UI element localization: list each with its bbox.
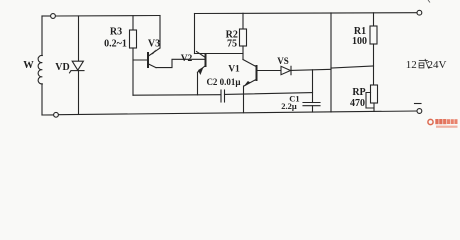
wire RP wiper xyxy=(366,93,374,109)
wire RP bottom lead xyxy=(373,103,375,111)
wire V1 emitter drop xyxy=(243,86,245,113)
wire R3 bottom lead down to lower bus xyxy=(132,48,134,95)
capacitor C1 xyxy=(303,103,320,106)
wire to V1 collector xyxy=(243,60,256,67)
wire R1 top lead xyxy=(373,13,375,26)
diode VD zener xyxy=(70,61,85,73)
plus tick top right xyxy=(428,0,430,3)
wire R2 bottom lead xyxy=(242,46,244,60)
capacitor C2 xyxy=(221,90,225,102)
resistor R1 xyxy=(370,26,377,44)
svg-text:W: W xyxy=(23,60,34,71)
wire mid vertical bus xyxy=(330,13,332,112)
wire lower bus left segment xyxy=(133,94,221,97)
wire top-left rail right part xyxy=(56,15,161,18)
svg-text:12: 12 xyxy=(406,59,417,71)
transistor V2 xyxy=(197,52,206,76)
svg-text:VD: VD xyxy=(55,62,69,73)
svg-text:75: 75 xyxy=(227,39,237,50)
terminal input bottom xyxy=(54,112,59,117)
terminal input top xyxy=(51,14,56,19)
wire bottom rail left xyxy=(42,114,54,116)
wire V2 emitter drop xyxy=(197,72,199,95)
wire junction to R1 bottom xyxy=(331,66,374,68)
terminal output plus xyxy=(417,10,422,15)
svg-text:V1: V1 xyxy=(228,64,240,74)
transistor V1 xyxy=(244,66,257,86)
wire R2 top lead xyxy=(242,13,244,29)
wire C1 bottom lead xyxy=(312,106,314,112)
wire VS to junction xyxy=(291,69,331,70)
wire W top lead xyxy=(41,16,43,56)
wire lower bus right segment xyxy=(225,93,313,95)
resistor R2 xyxy=(240,29,247,46)
svg-text:V3: V3 xyxy=(148,39,160,50)
terminal output minus xyxy=(417,109,422,114)
wire top-left rail xyxy=(42,15,51,17)
watermark logo xyxy=(428,119,458,128)
wire R1 bottom lead xyxy=(373,44,375,85)
wire bottom rail xyxy=(59,111,418,115)
svg-text:0.2~1: 0.2~1 xyxy=(104,39,127,50)
wire C1 top lead xyxy=(312,70,314,103)
resistor R3 xyxy=(130,30,137,48)
diode VS xyxy=(281,66,291,74)
minus sign xyxy=(415,103,422,105)
wire R2-bottom horizontal xyxy=(195,53,244,55)
svg-text:100: 100 xyxy=(352,36,367,47)
svg-text:C2 0.01μ: C2 0.01μ xyxy=(206,77,240,87)
wire W bottom lead xyxy=(41,84,43,115)
wire V3 collector to V2 base xyxy=(156,59,205,67)
svg-text:R3: R3 xyxy=(110,27,122,38)
wire V2 collector riser xyxy=(194,14,196,54)
label output voltage 12/24V xyxy=(406,59,447,71)
wire R3 top lead xyxy=(132,16,134,30)
wire V3 emitter riser xyxy=(159,16,161,49)
wire V3 base xyxy=(133,59,148,61)
wire right top rail xyxy=(195,12,418,15)
winding W xyxy=(38,55,42,83)
transistor V3 xyxy=(148,48,160,68)
svg-text:2.2μ: 2.2μ xyxy=(281,101,297,111)
wire VD bottom lead xyxy=(78,71,80,115)
wire VD top lead xyxy=(78,16,80,61)
svg-text:24V: 24V xyxy=(428,59,447,71)
svg-text:470: 470 xyxy=(350,98,365,109)
potentiometer RP xyxy=(371,85,378,103)
svg-text:V2: V2 xyxy=(181,54,193,64)
wire V1 base to VS xyxy=(258,70,282,72)
svg-text:VS: VS xyxy=(277,56,289,66)
svg-text:RP: RP xyxy=(352,87,365,98)
